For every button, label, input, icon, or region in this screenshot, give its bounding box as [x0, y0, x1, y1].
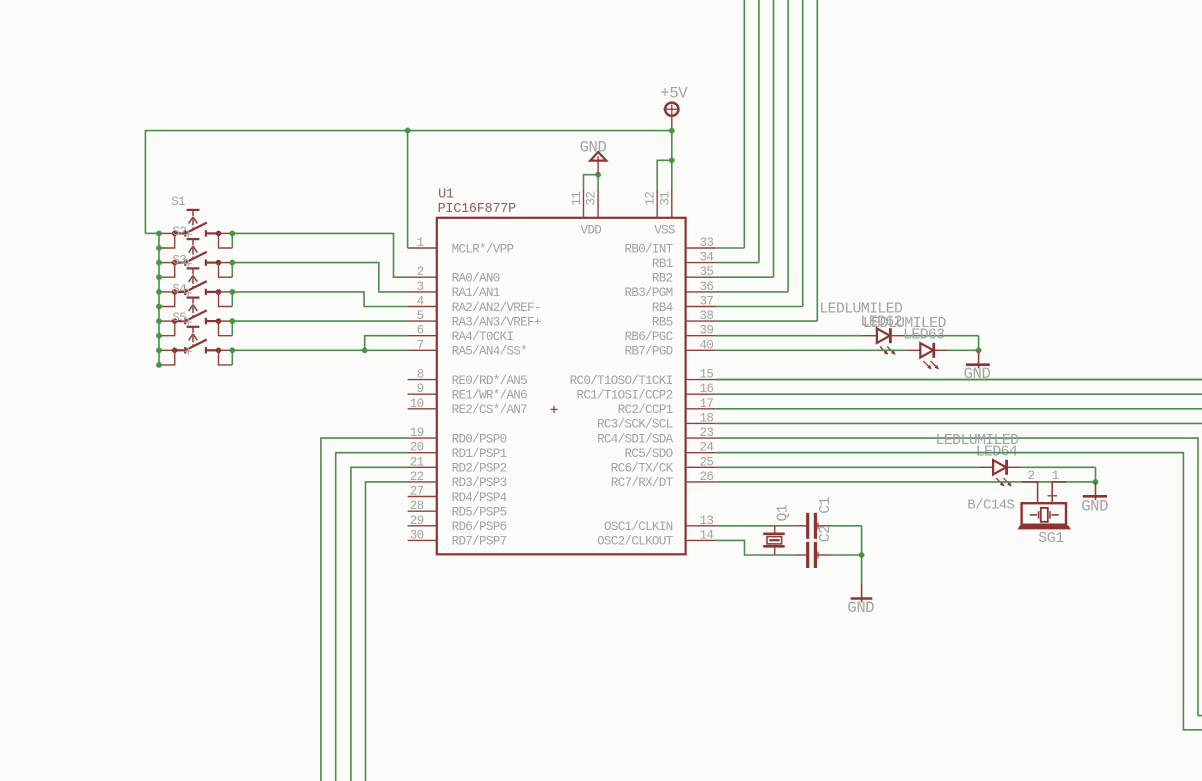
svg-text:7: 7	[417, 338, 424, 352]
svg-text:RE2/CS*/AN7: RE2/CS*/AN7	[452, 403, 528, 417]
svg-text:RB2: RB2	[652, 272, 673, 286]
svg-text:RA4/T0CKI: RA4/T0CKI	[452, 330, 514, 344]
svg-text:29: 29	[410, 514, 424, 528]
svg-text:4: 4	[417, 295, 424, 309]
svg-text:25: 25	[700, 455, 714, 469]
svg-text:S4: S4	[172, 282, 186, 296]
svg-text:RC4/SDI/SDA: RC4/SDI/SDA	[597, 432, 674, 446]
svg-text:RA0/AN0: RA0/AN0	[452, 272, 500, 286]
svg-text:9: 9	[417, 382, 424, 396]
svg-text:RC5/SDO: RC5/SDO	[624, 447, 672, 461]
svg-text:RD4/PSP4: RD4/PSP4	[452, 491, 507, 505]
svg-text:RD2/PSP2: RD2/PSP2	[452, 462, 507, 476]
svg-text:RA2/AN2/VREF-: RA2/AN2/VREF-	[452, 301, 541, 315]
svg-text:15: 15	[700, 368, 714, 382]
svg-text:S2: S2	[172, 225, 186, 239]
svg-text:RB5: RB5	[652, 315, 673, 329]
svg-text:RD1/PSP1: RD1/PSP1	[452, 447, 507, 461]
svg-text:RD6/PSP6: RD6/PSP6	[452, 520, 507, 534]
svg-text:32: 32	[585, 192, 599, 206]
svg-text:RE1/WR*/AN6: RE1/WR*/AN6	[452, 389, 528, 403]
svg-text:33: 33	[700, 236, 714, 250]
svg-text:S3: S3	[172, 254, 186, 268]
svg-text:37: 37	[700, 295, 714, 309]
svg-text:28: 28	[410, 499, 424, 513]
svg-text:GND: GND	[580, 139, 607, 157]
svg-text:2: 2	[417, 265, 424, 279]
svg-text:40: 40	[700, 338, 714, 352]
svg-text:14: 14	[700, 528, 714, 542]
svg-text:36: 36	[700, 280, 714, 294]
svg-text:U1: U1	[438, 187, 454, 202]
svg-text:24: 24	[700, 441, 714, 455]
svg-text:RD7/PSP7: RD7/PSP7	[452, 535, 507, 549]
svg-text:RB0/INT: RB0/INT	[624, 242, 673, 256]
svg-text:38: 38	[700, 309, 714, 323]
svg-text:12: 12	[644, 192, 658, 206]
svg-text:2: 2	[1028, 469, 1035, 483]
svg-text:PIC16F877P: PIC16F877P	[438, 202, 517, 217]
svg-text:RC6/TX/CK: RC6/TX/CK	[611, 462, 674, 476]
svg-text:OSC1/CLKIN: OSC1/CLKIN	[604, 520, 673, 534]
svg-text:RD5/PSP5: RD5/PSP5	[452, 506, 507, 520]
svg-text:SG1: SG1	[1038, 531, 1064, 547]
svg-text:30: 30	[410, 528, 424, 542]
svg-text:RC3/SCK/SCL: RC3/SCK/SCL	[597, 418, 673, 432]
svg-text:GND: GND	[964, 365, 991, 383]
svg-text:MCLR*/VPP: MCLR*/VPP	[452, 242, 514, 256]
svg-text:RB3/PGM: RB3/PGM	[624, 286, 672, 300]
svg-text:OSC2/CLKOUT: OSC2/CLKOUT	[597, 535, 674, 549]
svg-text:RA5/AN4/SS*: RA5/AN4/SS*	[452, 345, 528, 359]
svg-text:RA3/AN3/VREF+: RA3/AN3/VREF+	[452, 315, 541, 329]
svg-text:35: 35	[700, 265, 714, 279]
svg-text:LED63: LED63	[903, 328, 944, 344]
svg-text:RB6/PGC: RB6/PGC	[624, 330, 673, 344]
svg-text:1: 1	[1052, 469, 1059, 483]
svg-text:23: 23	[700, 426, 714, 440]
svg-text:11: 11	[570, 192, 584, 206]
svg-text:26: 26	[700, 470, 714, 484]
svg-text:16: 16	[700, 382, 714, 396]
svg-text:+5V: +5V	[660, 85, 688, 103]
svg-text:10: 10	[410, 397, 424, 411]
svg-text:RB1: RB1	[652, 257, 673, 271]
svg-text:RC2/CCP1: RC2/CCP1	[618, 403, 673, 417]
svg-text:6: 6	[417, 324, 424, 338]
svg-text:13: 13	[700, 514, 714, 528]
svg-text:RD0/PSP0: RD0/PSP0	[452, 432, 507, 446]
svg-text:RD3/PSP3: RD3/PSP3	[452, 476, 507, 490]
svg-text:3: 3	[417, 280, 424, 294]
svg-text:8: 8	[417, 368, 424, 382]
svg-text:RB7/PGD: RB7/PGD	[624, 345, 672, 359]
svg-text:B/C14S: B/C14S	[967, 498, 1014, 514]
svg-text:VDD: VDD	[581, 224, 602, 238]
svg-text:C1: C1	[818, 497, 834, 514]
svg-text:GND: GND	[847, 599, 874, 617]
svg-text:20: 20	[410, 441, 424, 455]
svg-text:5: 5	[417, 309, 424, 323]
svg-text:RE0/RD*/AN5: RE0/RD*/AN5	[452, 374, 528, 388]
svg-text:22: 22	[410, 470, 424, 484]
svg-text:RA1/AN1: RA1/AN1	[452, 286, 500, 300]
svg-text:S1: S1	[171, 195, 185, 209]
svg-text:C2: C2	[818, 526, 834, 543]
svg-text:RC0/T1OSO/T1CKI: RC0/T1OSO/T1CKI	[570, 374, 673, 388]
svg-text:27: 27	[410, 485, 424, 499]
svg-text:1: 1	[417, 236, 424, 250]
svg-text:34: 34	[700, 251, 714, 265]
svg-text:S5: S5	[172, 311, 186, 325]
svg-text:VSS: VSS	[654, 224, 675, 238]
svg-text:Q1: Q1	[776, 504, 792, 521]
svg-text:RB4: RB4	[652, 301, 673, 315]
svg-text:RC1/T1OSI/CCP2: RC1/T1OSI/CCP2	[576, 389, 672, 403]
svg-text:21: 21	[410, 455, 424, 469]
svg-text:19: 19	[410, 426, 424, 440]
svg-text:31: 31	[658, 192, 672, 206]
svg-text:17: 17	[700, 397, 714, 411]
svg-text:RC7/RX/DT: RC7/RX/DT	[611, 476, 674, 490]
svg-text:18: 18	[700, 411, 714, 425]
svg-text:GND: GND	[1081, 498, 1108, 516]
svg-text:39: 39	[700, 324, 714, 338]
